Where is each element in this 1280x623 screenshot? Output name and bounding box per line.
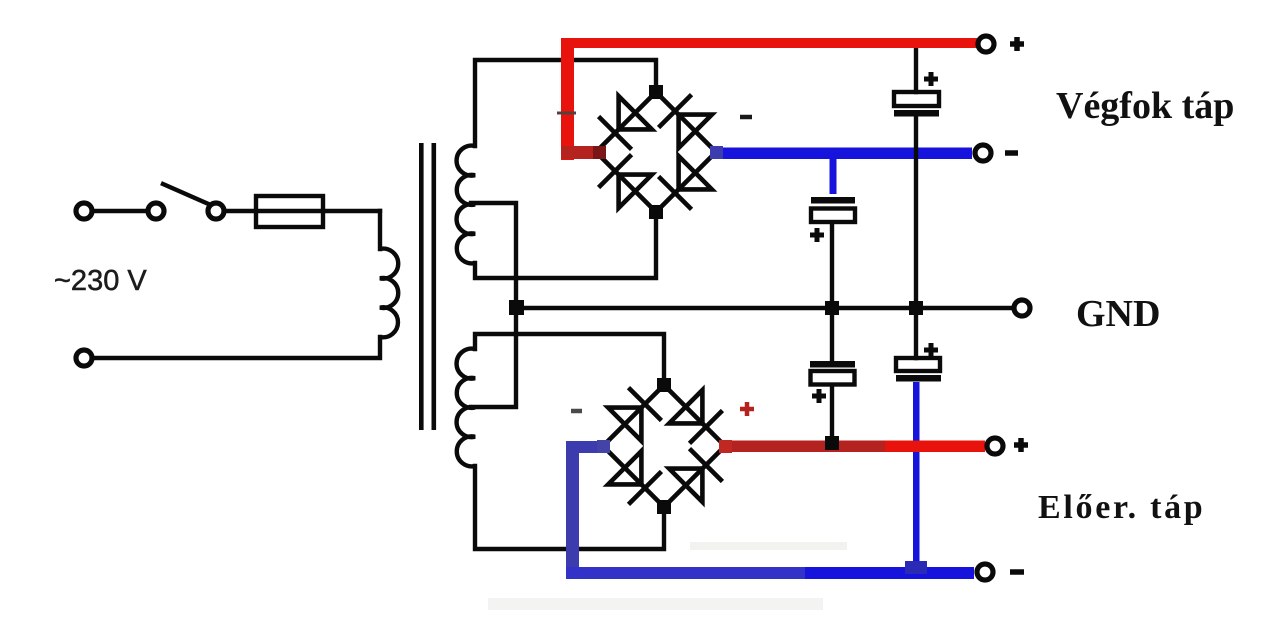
svg-text:Előer. táp: Előer. táp: [1038, 489, 1205, 526]
svg-text:Végfok táp: Végfok táp: [1056, 85, 1234, 127]
svg-text:~230 V: ~230 V: [54, 265, 147, 297]
svg-text:GND: GND: [1076, 293, 1160, 335]
